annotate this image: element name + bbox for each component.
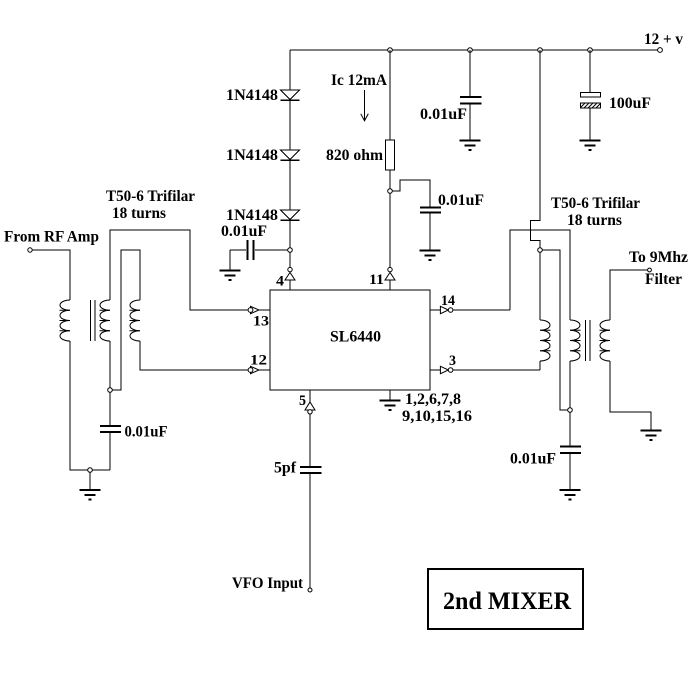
svg-text:0.01uF: 0.01uF bbox=[221, 223, 267, 240]
transformer T1 secondary 1 winding bbox=[100, 300, 110, 341]
wire: T1 primary bottom to ground bus bbox=[70, 341, 110, 470]
wire: pin 11 into IC bbox=[389, 280, 391, 290]
wire: power drop to T2 center feed with jog bbox=[531, 50, 541, 248]
pin 4 port symbol bbox=[285, 267, 295, 280]
wire: D3 down to bypass junction bbox=[289, 221, 291, 250]
svg-text:5: 5 bbox=[299, 393, 306, 409]
op-amp U1 SL6440 IC body bbox=[270, 290, 430, 390]
svg-text:4: 4 bbox=[276, 274, 285, 290]
transformer T1 primary winding bbox=[60, 300, 70, 341]
diode D3 1N4148 bbox=[281, 210, 300, 220]
wire: junction down to pin 4 symbol bbox=[289, 252, 291, 267]
junction: rail / transformer T2 feed bbox=[538, 48, 543, 53]
junction: diode chain / bypass cap node bbox=[288, 248, 293, 253]
wire: rail down to C6 bbox=[589, 50, 591, 93]
junction: rail / C6 100uF branch bbox=[588, 48, 593, 53]
wire: jog from junction to C2 bbox=[392, 180, 430, 207]
diode D2 1N4148 bbox=[281, 150, 300, 160]
wire: junction to C4 bbox=[109, 392, 111, 426]
svg-text:18 turns: 18 turns bbox=[112, 205, 166, 222]
svg-text:2nd MIXER: 2nd MIXER bbox=[443, 588, 572, 615]
svg-text:11: 11 bbox=[369, 272, 384, 288]
wire: +12V power rail bbox=[290, 49, 660, 51]
wire: C2 to ground bbox=[429, 213, 431, 250]
capacitor C5 0.01uF plates bbox=[560, 446, 581, 448]
pin 3 port symbol bbox=[440, 366, 453, 373]
ground (T1) bbox=[80, 490, 101, 500]
wire: ground stub bbox=[89, 472, 91, 490]
svg-text:3: 3 bbox=[449, 353, 456, 369]
wire: terminal to T1 primary top bbox=[32, 250, 70, 300]
ground (C5) bbox=[560, 490, 581, 500]
svg-text:0.01uF: 0.01uF bbox=[420, 106, 467, 123]
svg-text:Filter: Filter bbox=[645, 271, 682, 288]
ground (C3) bbox=[460, 141, 481, 151]
wire: pin 14 route up and over to T2 winding 2 top bbox=[510, 230, 570, 320]
junction: rail / 820 ohm branch bbox=[388, 48, 393, 53]
ground (T2 secondary) bbox=[641, 431, 662, 441]
pin 5 port symbol bbox=[305, 402, 315, 414]
svg-text:0.01uF: 0.01uF bbox=[438, 192, 484, 209]
wire: IC to pin 14 symbol bbox=[430, 309, 440, 311]
pin 11 port symbol bbox=[385, 267, 395, 280]
wire: pin 13 into IC bbox=[259, 309, 271, 311]
wire: pin 5 down to C7 bbox=[309, 414, 311, 466]
junction: T1 ground node bbox=[88, 468, 93, 473]
svg-text:820 ohm: 820 ohm bbox=[326, 147, 384, 164]
svg-text:From RF Amp: From RF Amp bbox=[4, 229, 99, 246]
wire: feed node right and down to bypass junction bbox=[542, 250, 568, 410]
svg-text:T50-6 Trifilar: T50-6 Trifilar bbox=[551, 195, 640, 212]
svg-text:14: 14 bbox=[441, 293, 455, 309]
svg-text:9,10,15,16: 9,10,15,16 bbox=[402, 408, 472, 425]
svg-text:1N4148: 1N4148 bbox=[226, 87, 278, 104]
pin 12 port symbol bbox=[248, 366, 259, 373]
capacitor C4 0.01uF plates bbox=[100, 425, 121, 427]
svg-text:1N4148: 1N4148 bbox=[226, 147, 278, 164]
wire: T1 sec1 top up and over to pin 13 drop bbox=[110, 230, 248, 310]
resistor R1 820 ohm bbox=[386, 140, 395, 170]
wire: C5 to ground bbox=[569, 454, 571, 491]
wire: R1 to junction bbox=[389, 170, 391, 189]
capacitor C1 0.01uF (pin-4 bypass) plates bbox=[247, 240, 249, 260]
junction: rail / C3 branch bbox=[468, 48, 473, 53]
transformer T2 winding 2 (primary b) bbox=[570, 320, 580, 361]
wire: D2 to D3 bbox=[289, 161, 291, 210]
wire: C6 to ground bbox=[589, 108, 591, 140]
junction: T2 bypass node bbox=[568, 408, 573, 413]
node: VFO Input terminal bbox=[308, 588, 312, 592]
capacitor C2 0.01uF plates bbox=[420, 207, 441, 209]
svg-text:0.01uF: 0.01uF bbox=[125, 424, 168, 441]
transformer T2 winding 1 (primary a) bbox=[540, 320, 550, 361]
svg-text:VFO Input: VFO Input bbox=[232, 575, 304, 592]
wire: junction to C5 bbox=[569, 412, 571, 446]
junction: T1 sec tie node bbox=[108, 388, 113, 393]
capacitor C3 0.01uF plates bbox=[460, 96, 482, 98]
wire: pin 14 to T2 bbox=[453, 309, 510, 311]
capacitor C7 5pf plates bbox=[300, 466, 322, 468]
wire: C4 bottom to ground bus bbox=[109, 433, 111, 471]
node: From RF Amp input terminal bbox=[28, 248, 32, 252]
svg-text:12: 12 bbox=[250, 353, 267, 369]
current arrow down bbox=[364, 90, 366, 121]
transformer T2 core bbox=[585, 320, 587, 361]
wire: IC to pin 3 symbol bbox=[430, 369, 440, 371]
wire: C1 left plate to ground corner bbox=[230, 249, 246, 251]
wire: rail down to C3 bbox=[469, 50, 471, 96]
svg-text:T50-6 Trifilar: T50-6 Trifilar bbox=[106, 188, 195, 205]
wire: junction down to pin 11 symbol bbox=[389, 193, 391, 267]
pin 13 port symbol bbox=[248, 306, 259, 313]
transformer T1 secondary 2 winding bbox=[130, 300, 140, 341]
svg-text:1,2,6,7,8: 1,2,6,7,8 bbox=[405, 391, 461, 408]
wire: T2 feed node down to winding 1 top bbox=[539, 252, 541, 320]
svg-text:18 turns: 18 turns bbox=[567, 212, 622, 229]
svg-text:Ic 12mA: Ic 12mA bbox=[331, 72, 387, 89]
wire: rail down to R1 bbox=[389, 50, 391, 140]
ground (IC common pins) bbox=[380, 401, 401, 411]
ground (C6) bbox=[580, 141, 601, 151]
wire: T1 sec2 bottom to pin 12 bbox=[140, 341, 248, 370]
capacitor C6 100uF electrolytic top plate bbox=[581, 93, 601, 98]
svg-text:13: 13 bbox=[253, 314, 269, 330]
wire: down to ground bbox=[229, 250, 231, 270]
wire: C1 right plate to junction bbox=[255, 249, 288, 251]
node: 12 + v supply terminal bbox=[658, 48, 663, 53]
ground (C1) bbox=[220, 271, 241, 281]
wire: T2 secondary top to output terminal bbox=[610, 270, 648, 320]
diode D1 1N4148 bbox=[281, 90, 300, 100]
transformer T1 core bbox=[90, 300, 92, 341]
capacitor C6 100uF electrolytic bottom plate (hatched) bbox=[581, 103, 601, 108]
wire: T2 secondary bottom to ground bbox=[610, 361, 651, 430]
pin 14 port symbol bbox=[440, 306, 453, 313]
wire: rail down to diode D1 bbox=[289, 50, 291, 90]
wire: C7 down to VFO terminal bbox=[309, 474, 311, 589]
wire: sec tie bypass over to T1 sec2 top bbox=[112, 250, 140, 390]
svg-text:SL6440: SL6440 bbox=[330, 329, 381, 346]
wire: C3 to ground bbox=[469, 104, 471, 140]
junction: T2 primary feed node bbox=[538, 248, 543, 253]
wire: IC ground stub bbox=[389, 390, 391, 400]
wire: pin 3 to T2 primary bottom bbox=[453, 369, 540, 371]
node: To 9Mhz Filter output terminal bbox=[648, 268, 652, 272]
wire: IC bottom to pin 5 symbol bbox=[309, 390, 311, 402]
svg-text:5pf: 5pf bbox=[274, 460, 297, 477]
wire: T2 winding 1 bottom to pin 3 wire bbox=[539, 361, 541, 370]
svg-text:0.01uF: 0.01uF bbox=[510, 451, 556, 468]
wire: T2 winding 2 bottom to bypass junction bbox=[569, 361, 571, 408]
svg-text:To 9Mhz: To 9Mhz bbox=[629, 249, 688, 266]
ground (C2) bbox=[420, 251, 441, 261]
wire: T1 sec1 bottom to junction bbox=[109, 341, 111, 388]
svg-text:12 + v: 12 + v bbox=[644, 31, 683, 48]
transformer T2 secondary winding bbox=[600, 320, 610, 361]
svg-text:100uF: 100uF bbox=[609, 95, 651, 112]
title box: 2nd MIXER bbox=[428, 569, 583, 629]
svg-text:1N4148: 1N4148 bbox=[226, 207, 278, 224]
wire: D1 to D2 bbox=[289, 101, 291, 150]
junction: R1 / C2 node bbox=[388, 189, 393, 194]
wire: pin 12 into IC bbox=[259, 369, 271, 371]
wire: pin 4 into IC bbox=[289, 280, 291, 290]
